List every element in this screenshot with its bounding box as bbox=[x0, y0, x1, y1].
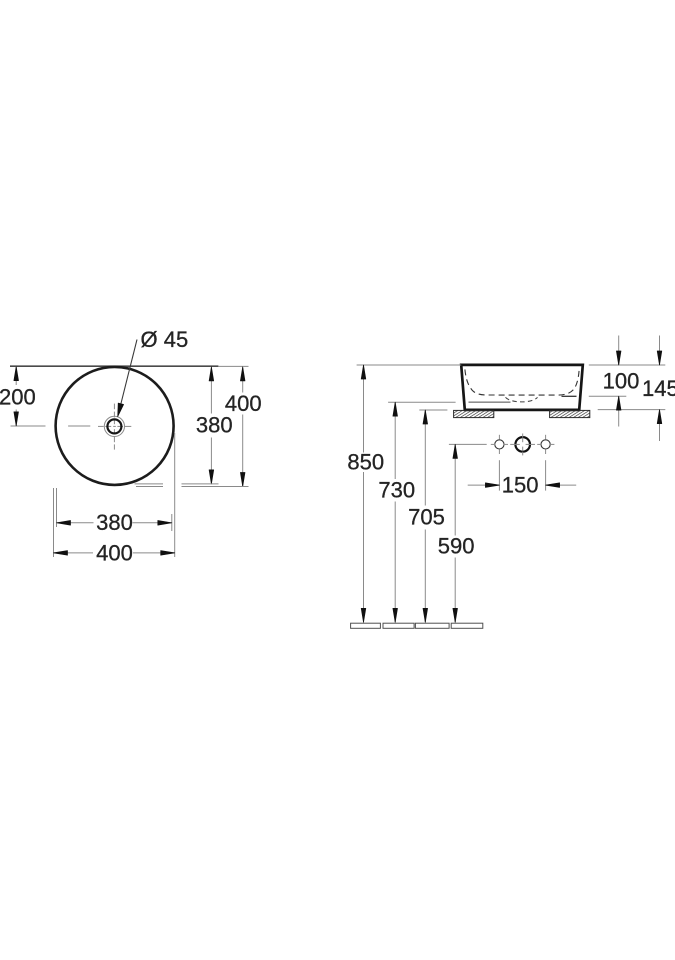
svg-text:100: 100 bbox=[603, 369, 640, 394]
svg-text:400: 400 bbox=[96, 541, 133, 566]
leader line O45 bbox=[118, 340, 137, 417]
wire top tangent line bbox=[10, 365, 249, 367]
crosshair small right bbox=[541, 440, 550, 449]
svg-text:Ø 45: Ø 45 bbox=[141, 327, 189, 352]
extension line basin bottom right bbox=[598, 409, 666, 411]
svg-text:380: 380 bbox=[196, 413, 233, 438]
dimension 380 vertical bbox=[135, 367, 233, 484]
svg-text:380: 380 bbox=[96, 510, 133, 535]
dimension 145 bbox=[642, 336, 675, 442]
mounting pad left bbox=[454, 410, 494, 417]
dimension 730 bbox=[378, 402, 415, 622]
dimension 850 bbox=[347, 365, 384, 622]
dimension 150 bbox=[468, 460, 577, 497]
crosshair centerlines horizontal bbox=[491, 443, 555, 445]
extension line 730 bbox=[388, 401, 456, 403]
svg-text:200: 200 bbox=[0, 385, 36, 410]
inner bowl dashed profile bbox=[465, 369, 579, 395]
crosshair small left bbox=[495, 440, 504, 449]
dimension 100 bbox=[603, 336, 640, 427]
dimension 400 horizontal bbox=[54, 541, 175, 566]
dimension 200 bbox=[0, 366, 36, 426]
dimension 400 vertical bbox=[136, 367, 262, 487]
dimension 590 bbox=[438, 444, 475, 622]
floor line segments bbox=[351, 623, 483, 628]
svg-text:400: 400 bbox=[225, 391, 262, 416]
extension lines below circle bbox=[54, 433, 175, 557]
dimension 705 bbox=[408, 410, 445, 622]
interior solid line right bbox=[562, 395, 577, 397]
basin body outline bbox=[461, 365, 583, 410]
drain dashed dip bbox=[506, 397, 538, 402]
crosshair big center bbox=[515, 437, 530, 452]
vertical centerline bbox=[113, 404, 115, 450]
mounting pad right bbox=[550, 410, 590, 417]
extension line 705 bbox=[419, 409, 447, 411]
svg-text:145: 145 bbox=[642, 376, 675, 401]
extension line top rim right bbox=[589, 364, 666, 366]
svg-text:730: 730 bbox=[378, 477, 415, 502]
extension line 590 bbox=[449, 443, 487, 445]
tap hole bbox=[104, 416, 124, 436]
svg-text:150: 150 bbox=[502, 473, 539, 498]
tap hole crosshairs group bbox=[491, 434, 555, 456]
extension line 850 (rim level) bbox=[357, 364, 462, 366]
svg-text:850: 850 bbox=[347, 450, 384, 475]
horizontal centerline bbox=[11, 425, 132, 427]
basin outer rim circle bbox=[56, 367, 174, 485]
extension line bowl depth bbox=[589, 395, 627, 397]
svg-text:590: 590 bbox=[438, 534, 475, 559]
svg-text:705: 705 bbox=[408, 505, 445, 530]
dimension 380 horizontal bbox=[57, 510, 172, 535]
interior solid line left bbox=[469, 401, 511, 403]
crosshair centerlines vertical bbox=[499, 434, 545, 456]
